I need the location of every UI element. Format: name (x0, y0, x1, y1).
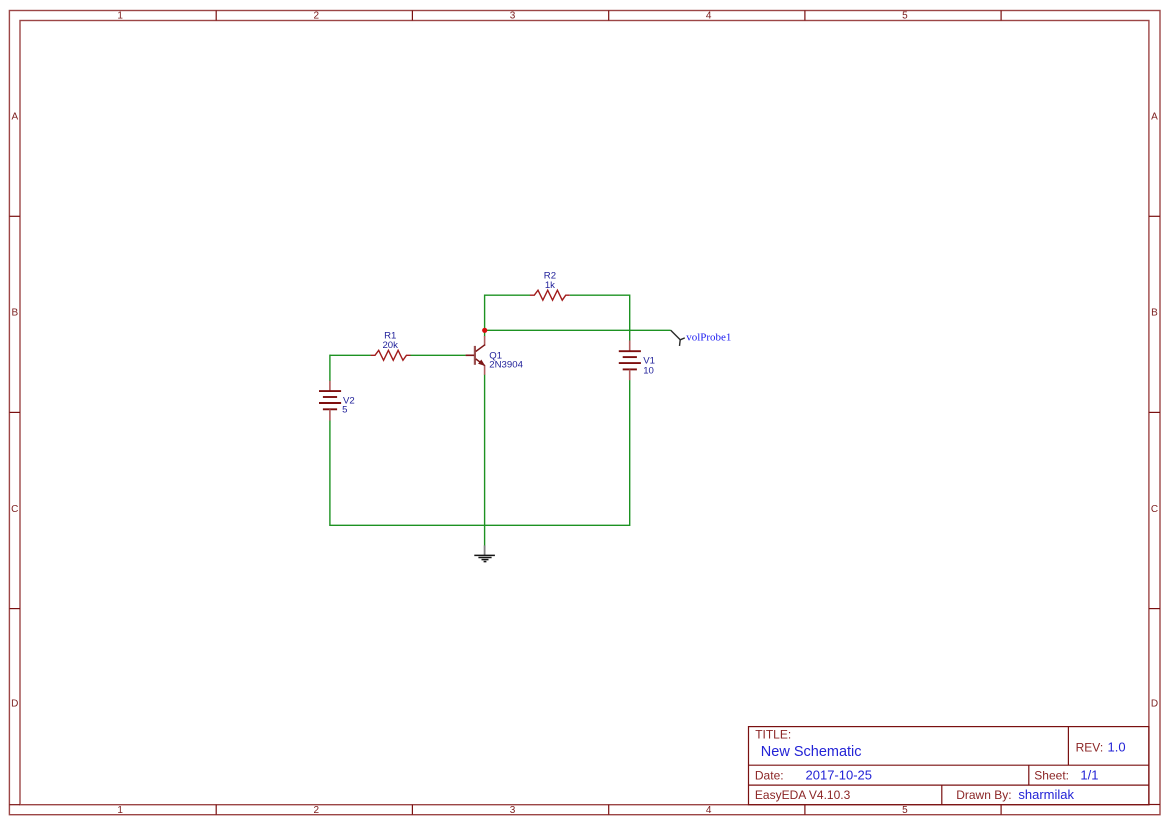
svg-text:B: B (1151, 308, 1158, 319)
svg-text:2: 2 (314, 805, 320, 816)
svg-text:5: 5 (342, 405, 347, 416)
frame row ticks left (9, 216, 20, 804)
resistor R2 (530, 290, 570, 300)
frame column numbers bottom (117, 805, 908, 816)
svg-text:20k: 20k (382, 340, 398, 351)
svg-text:Date:: Date: (755, 768, 784, 782)
wire: left vertical to V2 (329, 355, 331, 381)
svg-text:5: 5 (902, 805, 908, 816)
wire: emitter to ground (484, 375, 486, 546)
svg-text:1k: 1k (545, 280, 555, 291)
wire: top net R2 right segment (570, 294, 630, 296)
wire: V1 bottom to bottom rail (629, 380, 631, 526)
voltage probe volProbe1 (671, 330, 685, 346)
svg-text:Drawn By:: Drawn By: (956, 788, 1011, 802)
svg-text:5: 5 (902, 11, 908, 22)
title block outline (749, 727, 1149, 805)
wire: V2 bottom to bottom rail (329, 420, 331, 526)
svg-text:C: C (11, 504, 18, 515)
svg-text:D: D (1151, 698, 1158, 709)
resistor R1 (371, 350, 411, 360)
frame column numbers top (117, 11, 908, 22)
svg-text:1.0: 1.0 (1108, 740, 1126, 755)
wire: top net R2 left segment (330, 295, 671, 546)
frame column ticks bottom (216, 805, 1001, 815)
svg-text:C: C (1151, 504, 1158, 515)
svg-text:B: B (11, 308, 18, 319)
svg-text:1: 1 (117, 805, 123, 816)
frame column ticks top (216, 11, 1001, 21)
junction dot node collector (482, 328, 487, 333)
svg-text:EasyEDA V4.10.3: EasyEDA V4.10.3 (755, 788, 851, 802)
svg-text:2N3904: 2N3904 (489, 360, 523, 371)
wire: base net right segment (410, 354, 465, 356)
svg-text:A: A (1151, 112, 1158, 123)
svg-text:REV:: REV: (1076, 741, 1104, 755)
battery V2 (319, 381, 341, 421)
svg-text:1: 1 (117, 11, 123, 22)
transistor Q1 (466, 336, 486, 375)
frame row letters left (11, 112, 18, 710)
svg-text:3: 3 (510, 805, 516, 816)
svg-text:4: 4 (706, 805, 712, 816)
svg-text:10: 10 (643, 365, 654, 376)
svg-text:sharmilak: sharmilak (1018, 787, 1074, 802)
wire: probe horizontal net (485, 329, 671, 331)
battery V1 (619, 341, 641, 381)
wire: bottom rail (330, 524, 630, 526)
wire: base net left segment (330, 354, 371, 356)
svg-text:2: 2 (314, 11, 320, 22)
svg-text:D: D (11, 698, 18, 709)
ground (474, 545, 495, 561)
svg-text:TITLE:: TITLE: (755, 728, 791, 742)
frame row ticks right (1149, 216, 1160, 804)
wire: vertical collector branch (484, 295, 486, 337)
svg-text:New Schematic: New Schematic (761, 744, 862, 760)
svg-text:4: 4 (706, 11, 712, 22)
svg-text:Sheet:: Sheet: (1034, 768, 1069, 782)
svg-text:volProbe1: volProbe1 (686, 332, 731, 344)
frame row letters right (1151, 112, 1158, 710)
svg-text:3: 3 (510, 11, 516, 22)
svg-text:A: A (11, 112, 18, 123)
wire: vertical V1 top branch (629, 295, 631, 341)
svg-text:2017-10-25: 2017-10-25 (806, 768, 873, 783)
svg-text:1/1: 1/1 (1080, 768, 1098, 783)
